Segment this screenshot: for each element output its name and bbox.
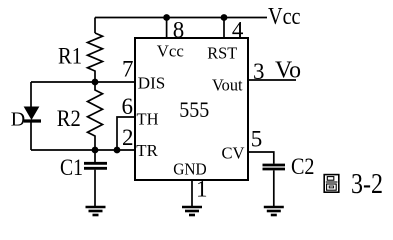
svg-text:D: D bbox=[11, 109, 25, 131]
svg-text:3: 3 bbox=[253, 59, 265, 84]
svg-text:8: 8 bbox=[173, 17, 185, 42]
diode D bbox=[25, 107, 39, 119]
caption figure 3-2 bbox=[324, 168, 383, 200]
wire left rail diode branch bbox=[30, 82, 32, 107]
capacitor C1 bbox=[94, 150, 96, 162]
wire TR pin2 horizontal bbox=[31, 149, 135, 151]
svg-text:1: 1 bbox=[196, 176, 208, 201]
svg-text:7: 7 bbox=[122, 57, 134, 82]
svg-text:5: 5 bbox=[251, 127, 263, 152]
IC U1 555 box bbox=[135, 38, 248, 180]
node junction pin4 bbox=[221, 14, 228, 21]
wire pin8 drop bbox=[166, 18, 168, 39]
svg-text:CV: CV bbox=[222, 144, 246, 163]
resistor R1 bbox=[88, 33, 103, 82]
resistor R2 bbox=[88, 82, 103, 150]
node junction R2-C1-TR bbox=[92, 147, 99, 154]
svg-text:Vcc: Vcc bbox=[268, 4, 301, 30]
svg-text:Vo: Vo bbox=[275, 58, 301, 84]
capacitor C2 bbox=[263, 164, 286, 167]
wire top rail Vcc bbox=[95, 17, 267, 19]
svg-text:R1: R1 bbox=[58, 43, 82, 68]
ground GND pin1 bbox=[182, 207, 202, 215]
node junction TH-TR bbox=[114, 147, 121, 154]
svg-text:C1: C1 bbox=[60, 155, 83, 180]
wire pin3 output bbox=[248, 79, 296, 81]
svg-text:3-2: 3-2 bbox=[351, 168, 383, 200]
wire pin1 GND bbox=[191, 180, 193, 206]
svg-text:2: 2 bbox=[122, 125, 134, 150]
svg-text:4: 4 bbox=[232, 17, 244, 42]
wire diode to TR rail bbox=[30, 123, 32, 151]
node junction pin8 bbox=[163, 14, 170, 21]
svg-text:Vout: Vout bbox=[212, 76, 243, 95]
svg-text:TR: TR bbox=[136, 141, 158, 160]
ground C2 bbox=[264, 207, 284, 215]
CJK glyph tu (figure) drawn as paths bbox=[324, 175, 339, 193]
wire pin5 CV bbox=[248, 152, 274, 164]
svg-text:DIS: DIS bbox=[138, 74, 166, 93]
svg-text:R2: R2 bbox=[57, 106, 81, 131]
wire drop to R1 bbox=[94, 18, 96, 34]
svg-text:C2: C2 bbox=[291, 154, 315, 179]
node junction R1-R2-DIS bbox=[92, 79, 99, 86]
svg-text:TH: TH bbox=[137, 109, 159, 128]
svg-text:RST: RST bbox=[207, 44, 238, 63]
svg-text:6: 6 bbox=[122, 94, 134, 119]
wire pin4 drop bbox=[223, 18, 225, 39]
ground C1 bbox=[86, 207, 106, 215]
svg-text:555: 555 bbox=[179, 97, 209, 122]
wire DIS pin7 horizontal bbox=[31, 81, 135, 83]
svg-text:Vcc: Vcc bbox=[157, 42, 184, 61]
wire TH pin6 bbox=[117, 117, 135, 150]
